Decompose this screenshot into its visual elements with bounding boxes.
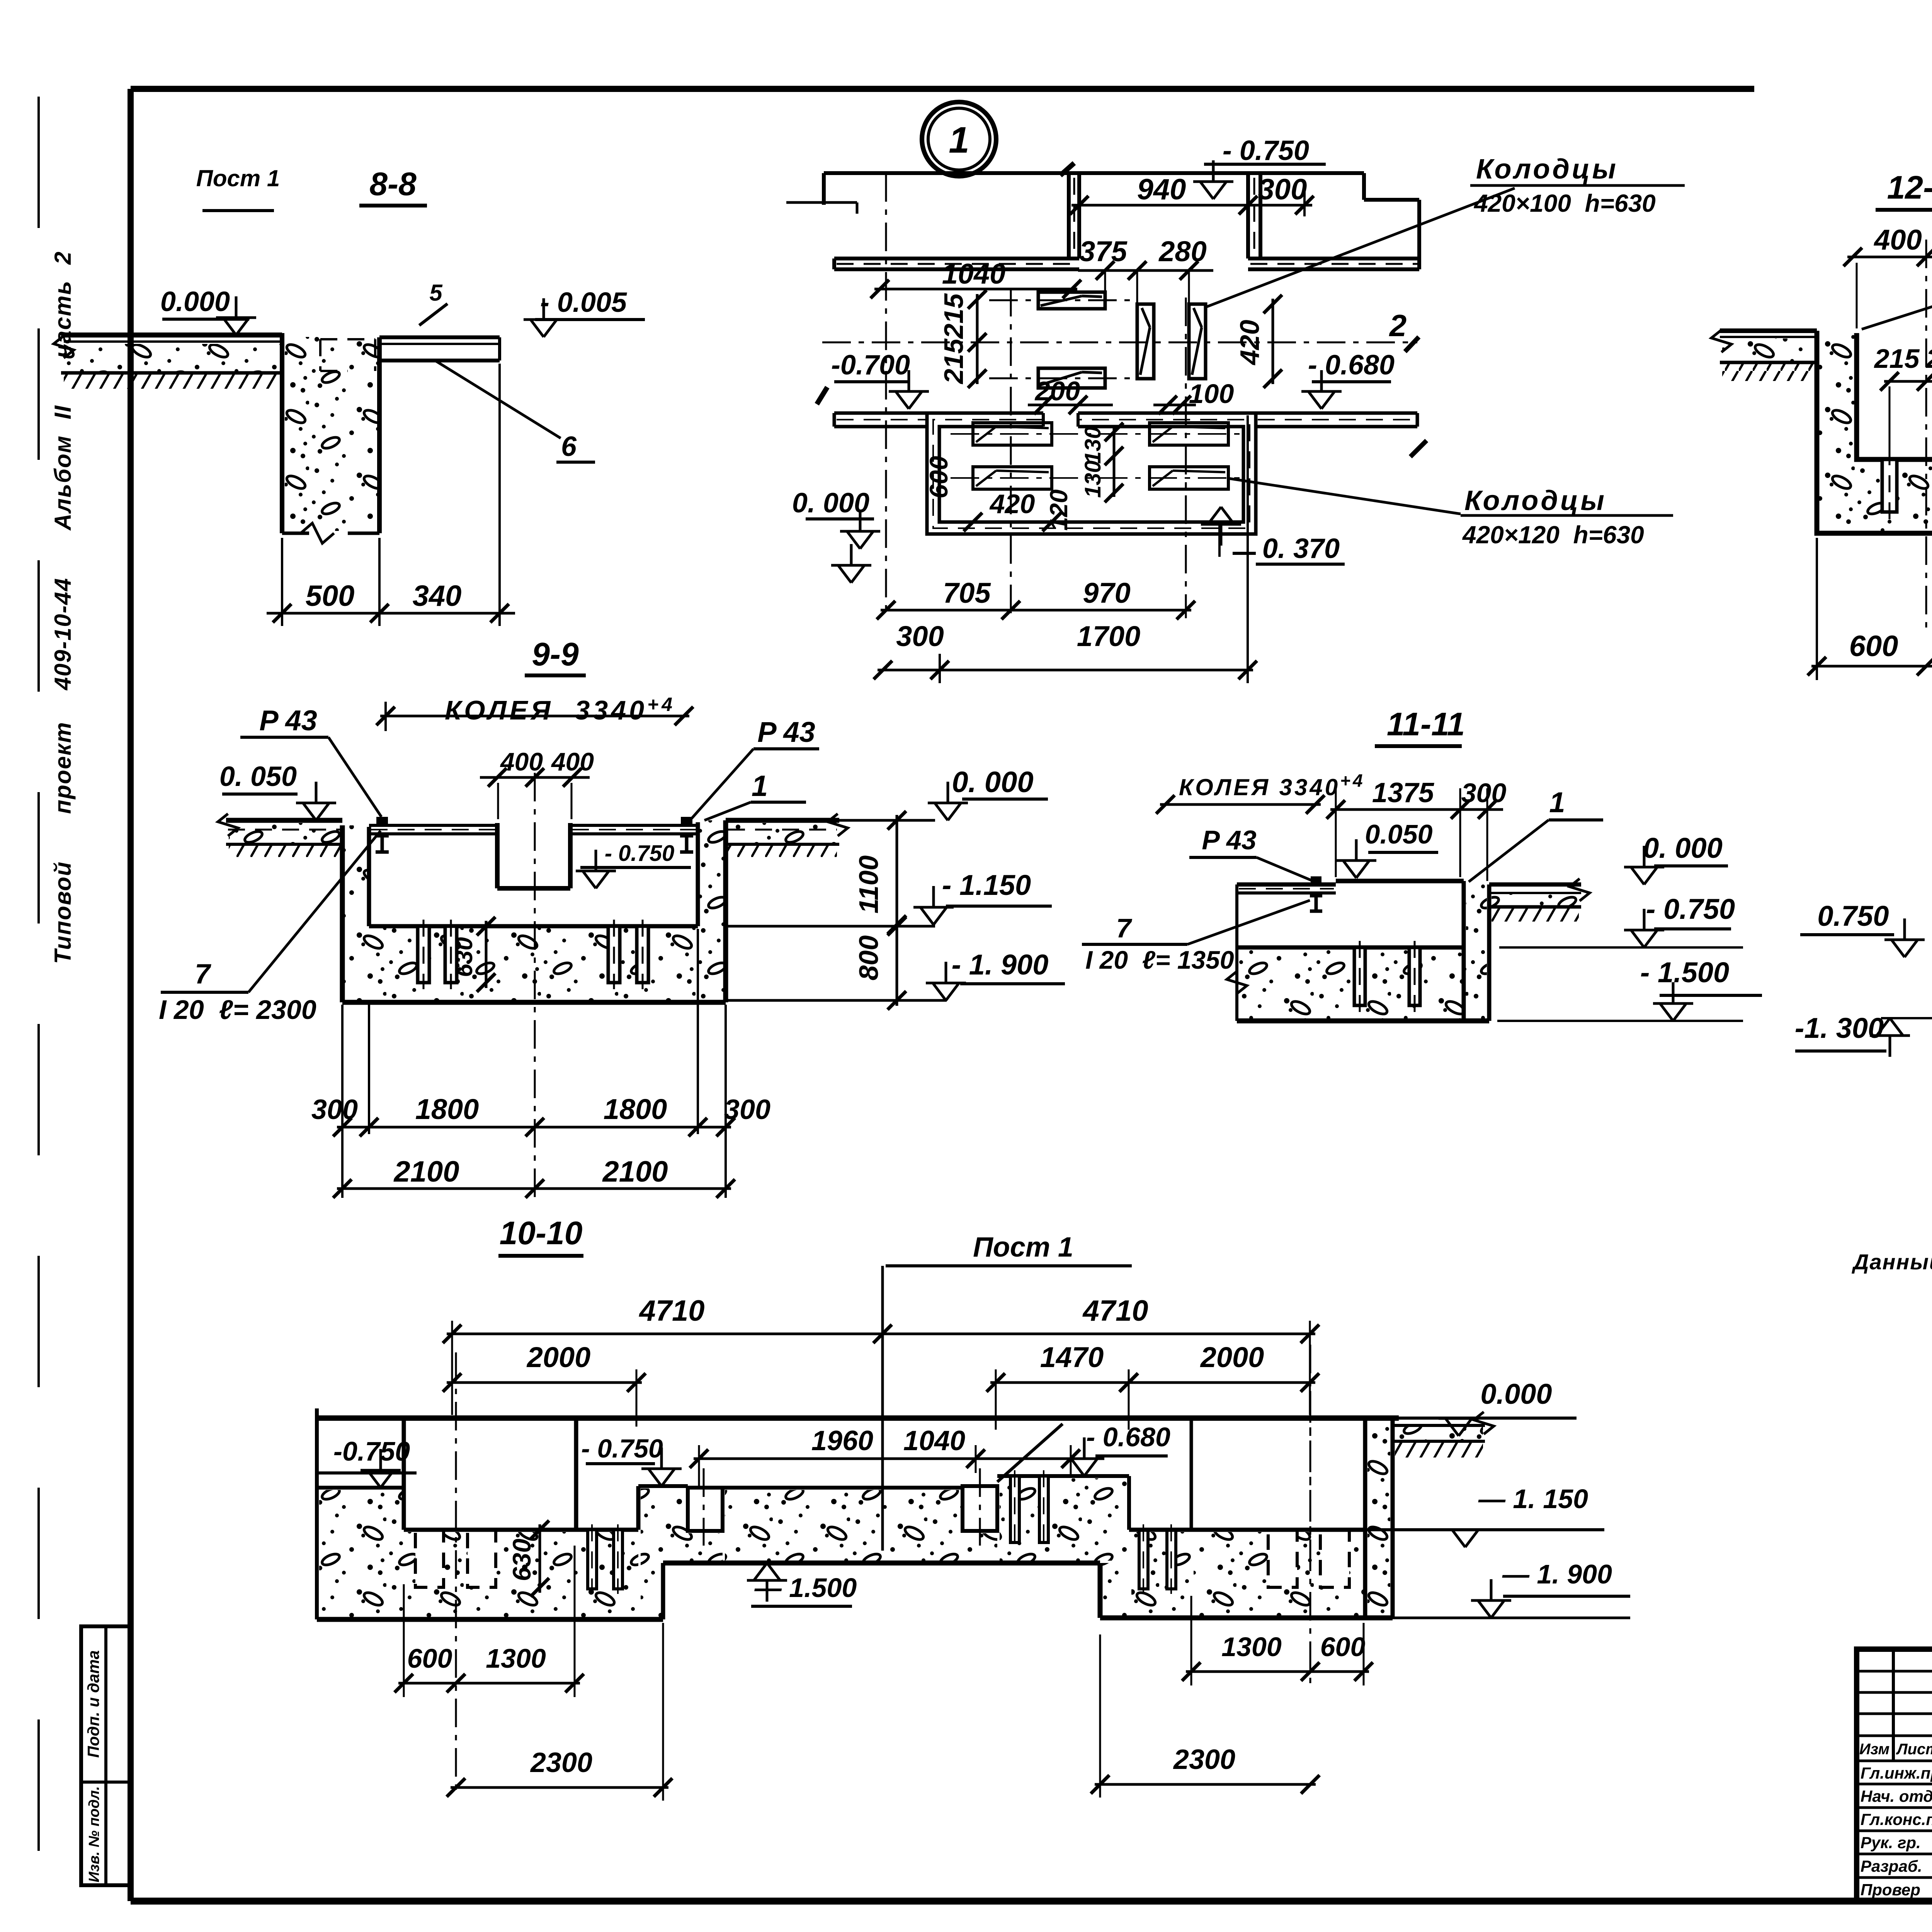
svg-text:130: 130 [1080, 461, 1105, 498]
svg-text:- 1. 900: - 1. 900 [952, 949, 1049, 981]
svg-text:— 1.500: — 1.500 [754, 1573, 857, 1603]
svg-text:0.000: 0.000 [1480, 1378, 1552, 1410]
svg-text:215: 215 [939, 293, 969, 340]
svg-text:- 0.750: - 0.750 [605, 841, 675, 866]
svg-text:705: 705 [943, 577, 991, 609]
svg-text:- 0.750: - 0.750 [1223, 135, 1309, 166]
svg-text:215: 215 [1874, 344, 1920, 374]
svg-text:1040: 1040 [942, 258, 1006, 290]
svg-text:- 1.500: - 1.500 [1640, 956, 1729, 988]
svg-text:970: 970 [1083, 577, 1130, 609]
svg-text:1375: 1375 [1372, 777, 1434, 808]
svg-text:2300: 2300 [530, 1747, 592, 1778]
svg-text:300: 300 [896, 620, 944, 652]
svg-text:130: 130 [1080, 427, 1105, 464]
svg-text:6: 6 [561, 431, 577, 462]
svg-text:- 1.150: - 1.150 [942, 869, 1031, 901]
svg-text:300: 300 [311, 1094, 358, 1125]
svg-text:Колодцы: Колодцы [1476, 154, 1618, 185]
svg-text:4710: 4710 [1082, 1294, 1148, 1327]
svg-text:- 0.750: - 0.750 [581, 1434, 663, 1463]
svg-text:- 0.680: - 0.680 [1086, 1422, 1170, 1452]
svg-text:8-8: 8-8 [369, 166, 417, 202]
svg-text:КОЛЕЯ 3340+4: КОЛЕЯ 3340+4 [1179, 770, 1365, 800]
svg-text:1300: 1300 [1221, 1632, 1282, 1662]
svg-text:1700: 1700 [1077, 620, 1141, 652]
svg-text:0.750: 0.750 [1817, 900, 1889, 932]
svg-text:400: 400 [500, 747, 543, 776]
svg-text:0.050: 0.050 [1365, 819, 1432, 849]
svg-text:2000: 2000 [1200, 1341, 1264, 1373]
svg-text:9-9: 9-9 [532, 636, 579, 672]
svg-text:- 0.005: - 0.005 [540, 287, 627, 318]
svg-text:Провер: Провер [1861, 1881, 1920, 1899]
svg-text:10-10: 10-10 [500, 1215, 583, 1251]
svg-text:I 20 ℓ= 1350: I 20 ℓ= 1350 [1085, 946, 1234, 974]
svg-text:Колодцы: Колодцы [1464, 485, 1607, 516]
svg-text:200: 200 [1034, 376, 1080, 406]
svg-text:Пост 1: Пост 1 [973, 1232, 1073, 1263]
svg-text:1800: 1800 [415, 1093, 479, 1125]
svg-text:— 1. 150: — 1. 150 [1478, 1484, 1588, 1514]
svg-text:Изм: Изм [1859, 1741, 1889, 1758]
svg-text:1: 1 [949, 119, 969, 161]
svg-text:420×100 h=630: 420×100 h=630 [1473, 189, 1656, 217]
svg-text:0. 000: 0. 000 [1643, 832, 1723, 864]
svg-text:2300: 2300 [1173, 1744, 1235, 1775]
svg-text:-1. 300: -1. 300 [1795, 1012, 1884, 1044]
svg-text:1470: 1470 [1040, 1341, 1104, 1373]
svg-text:1040: 1040 [903, 1425, 965, 1456]
svg-text:2100: 2100 [602, 1155, 668, 1188]
svg-text:630: 630 [507, 1539, 536, 1581]
svg-text:Подп. и дата: Подп. и дата [84, 1650, 102, 1758]
svg-text:940: 940 [1137, 173, 1186, 206]
svg-text:400: 400 [1873, 224, 1922, 256]
svg-text:420: 420 [989, 489, 1035, 519]
svg-text:Нач. отд.: Нач. отд. [1861, 1787, 1932, 1805]
svg-text:375: 375 [1079, 235, 1128, 267]
svg-text:Гл.инж.пр: Гл.инж.пр [1861, 1764, 1932, 1782]
svg-text:0. 370: 0. 370 [1262, 533, 1340, 564]
svg-text:P 43: P 43 [259, 704, 317, 736]
svg-text:Разраб.: Разраб. [1861, 1857, 1922, 1875]
svg-text:2100: 2100 [393, 1155, 459, 1188]
svg-text:300: 300 [724, 1094, 770, 1125]
svg-text:0. 050: 0. 050 [219, 761, 297, 792]
svg-text:P 43: P 43 [757, 716, 815, 748]
svg-text:500: 500 [306, 580, 355, 612]
svg-text:340: 340 [413, 580, 462, 612]
svg-text:215: 215 [939, 338, 969, 385]
svg-text:800: 800 [854, 935, 884, 981]
svg-text:-0.750: -0.750 [333, 1436, 410, 1466]
svg-text:300: 300 [1461, 778, 1507, 808]
svg-text:600: 600 [924, 456, 953, 498]
svg-text:630: 630 [451, 937, 478, 977]
svg-text:600: 600 [407, 1643, 452, 1673]
svg-text:5: 5 [429, 280, 443, 306]
svg-text:600: 600 [1849, 630, 1898, 663]
svg-text:400: 400 [551, 747, 594, 776]
svg-text:280: 280 [1158, 235, 1206, 267]
svg-text:I 20 ℓ= 2300: I 20 ℓ= 2300 [159, 995, 316, 1025]
svg-text:7: 7 [195, 959, 211, 990]
svg-text:120: 120 [1045, 490, 1073, 531]
svg-text:Рук. гр.: Рук. гр. [1861, 1833, 1921, 1852]
svg-text:2: 2 [1389, 308, 1407, 343]
svg-text:— 1. 900: — 1. 900 [1502, 1559, 1612, 1589]
svg-text:1960: 1960 [811, 1425, 873, 1456]
svg-text:0.000: 0.000 [160, 286, 230, 317]
svg-text:2000: 2000 [526, 1341, 591, 1373]
svg-text:1300: 1300 [486, 1643, 546, 1673]
svg-text:Пост 1: Пост 1 [196, 165, 280, 191]
svg-text:0. 000: 0. 000 [952, 766, 1033, 799]
svg-text:P 43: P 43 [1202, 825, 1256, 855]
svg-text:0. 000: 0. 000 [792, 488, 869, 519]
svg-text:Гл.конс.пр: Гл.конс.пр [1861, 1810, 1932, 1828]
svg-text:- 0.750: - 0.750 [1646, 893, 1735, 925]
svg-text:12-12: 12-12 [1887, 169, 1932, 206]
svg-text:-0.700: -0.700 [831, 350, 910, 381]
svg-text:300: 300 [1258, 173, 1307, 206]
svg-text:7: 7 [1116, 913, 1133, 943]
svg-text:11-11: 11-11 [1387, 706, 1465, 742]
svg-text:420×120 h=630: 420×120 h=630 [1462, 521, 1644, 549]
svg-text:Данный лист смотреть совместн: Данный лист смотреть совместно с листами… [1852, 1250, 1932, 1274]
svg-text:1: 1 [1549, 786, 1565, 818]
svg-text:1100: 1100 [854, 855, 884, 914]
svg-text:600: 600 [1320, 1632, 1366, 1662]
svg-text:1: 1 [752, 770, 768, 803]
svg-text:КОЛЕЯ 3340+4: КОЛЕЯ 3340+4 [445, 694, 675, 725]
svg-text:Изв. № подл.: Изв. № подл. [86, 1786, 102, 1882]
svg-text:Лист: Лист [1896, 1741, 1932, 1758]
svg-text:1800: 1800 [604, 1093, 667, 1125]
svg-text:4710: 4710 [638, 1294, 704, 1327]
